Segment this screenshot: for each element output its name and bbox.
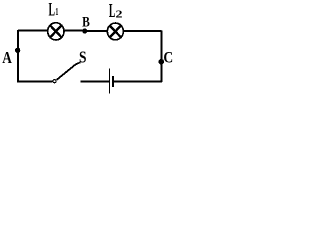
wire: switch to battery <box>80 80 109 82</box>
svg-text:B: B <box>82 14 90 30</box>
label L2 <box>109 0 123 22</box>
node A <box>15 48 20 53</box>
wire: right vertical <box>160 31 162 83</box>
lamp L2 <box>107 23 123 40</box>
wire: between lamps <box>64 30 107 32</box>
battery negative plate (short thick) <box>112 76 114 87</box>
node C <box>159 59 165 65</box>
wire: battery to bottom-right corner <box>113 80 162 82</box>
svg-text:A: A <box>2 48 12 67</box>
switch S lever <box>57 64 76 80</box>
wire: bottom-left horizontal <box>17 80 52 82</box>
wire: top-left horizontal <box>18 30 48 32</box>
battery positive plate (long) <box>108 68 110 93</box>
wire: top-right horizontal <box>124 30 162 32</box>
svg-text:1: 1 <box>55 7 58 18</box>
svg-text:C: C <box>163 49 173 66</box>
node B <box>82 28 87 33</box>
svg-text:2: 2 <box>116 9 123 20</box>
lamp L1 <box>48 23 64 40</box>
label L1 <box>49 0 59 20</box>
switch S lever tip <box>75 62 80 64</box>
wire: left vertical <box>17 30 19 82</box>
switch S pivot contact <box>52 79 56 83</box>
svg-text:L: L <box>49 0 56 20</box>
svg-text:S: S <box>79 47 87 66</box>
svg-text:L: L <box>109 0 116 22</box>
